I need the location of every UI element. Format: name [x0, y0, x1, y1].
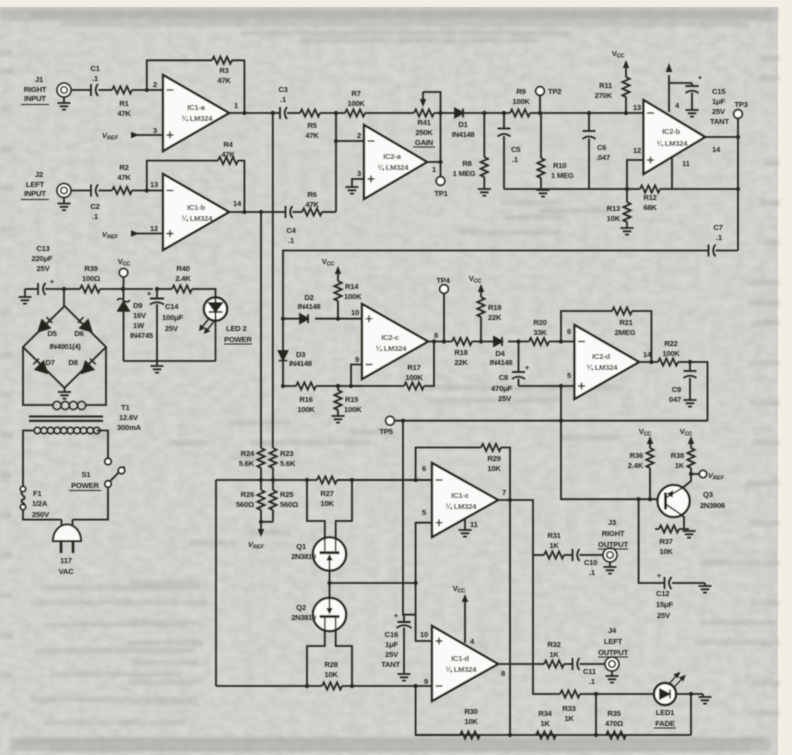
node output R29 — [508, 498, 512, 502]
diode D1 — [455, 109, 463, 118]
svg-text:250V: 250V — [32, 510, 50, 519]
label R37 10K — [659, 537, 673, 556]
label R16 100K — [297, 395, 315, 414]
svg-text:10: 10 — [420, 630, 428, 639]
node C8 top — [516, 339, 520, 343]
node R27 right — [350, 478, 354, 482]
wire pin9 drop to bottom rail — [416, 686, 460, 735]
svg-text:R1: R1 — [119, 99, 129, 108]
node TP5 line pin5 riser — [559, 419, 563, 423]
node pin2 tap — [334, 139, 338, 143]
label IC1-b LM324 — [182, 203, 214, 223]
wire R21 feedback loop — [561, 311, 651, 362]
label C9 047 — [669, 385, 681, 404]
svg-text:25V: 25V — [657, 611, 671, 620]
svg-text:47K: 47K — [117, 173, 131, 182]
label Q3 2N3906 — [700, 490, 725, 510]
node R28 left — [305, 684, 309, 688]
wire Q1 gate to node — [329, 570, 331, 583]
resistor R28 — [322, 682, 342, 689]
op-amp IC1-a — [163, 75, 229, 151]
label C10 .1 — [584, 558, 597, 577]
label R25 560ohm — [280, 490, 298, 509]
svg-text:D9: D9 — [133, 301, 142, 310]
capacitor C15 — [669, 83, 699, 117]
svg-text:D3: D3 — [296, 350, 305, 359]
svg-text:8: 8 — [434, 331, 438, 340]
wire output down to C7 — [737, 137, 739, 251]
node tap to R24 — [259, 210, 263, 214]
label Vref arrow down — [258, 522, 264, 537]
node TP4 — [442, 339, 446, 343]
svg-text:OUTPUT: OUTPUT — [598, 540, 629, 549]
wire primary right to S1 — [97, 431, 108, 459]
svg-text:S1: S1 — [82, 470, 92, 479]
svg-text:8: 8 — [501, 669, 505, 678]
resistor R15 — [332, 386, 345, 423]
label Q2 2N3819 — [291, 603, 316, 622]
potentiometer R41 — [414, 92, 441, 117]
resistor R40 — [172, 285, 192, 292]
svg-text:R36: R36 — [630, 451, 643, 460]
jack J3 — [603, 548, 617, 562]
svg-text:47K: 47K — [117, 109, 131, 118]
wire R4 to output — [238, 161, 244, 212]
jack J1 — [57, 83, 71, 97]
resistor R36 with Vcc — [646, 436, 653, 499]
wire pin4 Vcc stub — [666, 63, 672, 112]
resistor R24 — [257, 448, 264, 480]
wire to pin2 IC2-a — [336, 140, 364, 142]
svg-text:R41: R41 — [417, 118, 431, 127]
wire left edge loop — [215, 480, 217, 686]
label C5 .1 — [511, 145, 521, 164]
label R33 1K — [562, 704, 575, 723]
capacitor C6 — [583, 113, 596, 189]
wire Q1 drain-source bracket top — [307, 480, 352, 539]
zener D9 — [117, 289, 130, 361]
capacitor C11 — [573, 658, 580, 670]
svg-text:22K: 22K — [454, 358, 468, 367]
op-amp IC1-b — [163, 174, 229, 250]
resistor R30 — [460, 731, 480, 738]
wire R16 line — [283, 385, 362, 387]
capacitor C7 — [709, 245, 716, 257]
label C12 15uF 25V — [656, 589, 673, 620]
svg-text:IN4148: IN4148 — [490, 358, 513, 367]
label D3 IN4148 — [289, 350, 312, 368]
svg-text:C7: C7 — [713, 223, 722, 232]
svg-text:IC1-a: IC1-a — [187, 103, 206, 112]
svg-text:100K: 100K — [662, 349, 680, 358]
svg-text:1K: 1K — [564, 714, 574, 723]
node TP1 — [438, 160, 442, 164]
op-amp IC2-c — [362, 304, 428, 379]
label R26 560ohm — [236, 490, 254, 509]
svg-text:14: 14 — [233, 199, 242, 208]
label R20 33K — [533, 318, 547, 337]
svg-text:470μF: 470μF — [491, 384, 513, 393]
pin number 4d — [470, 637, 475, 646]
svg-text:C12: C12 — [656, 589, 669, 598]
label R21 2MEG — [615, 318, 636, 337]
resistor R3 — [212, 57, 232, 64]
wire drop to bottom rail — [509, 500, 511, 735]
svg-text:C15: C15 — [712, 87, 726, 96]
svg-text:47K: 47K — [305, 131, 319, 140]
svg-text:D6: D6 — [74, 329, 83, 338]
label 117 VAC — [59, 556, 75, 576]
svg-text:5.6K: 5.6K — [280, 459, 296, 468]
label Vcc R38 — [680, 427, 693, 438]
test point TP5 — [386, 416, 395, 425]
svg-text:9: 9 — [424, 677, 428, 686]
wire R31 line — [533, 554, 544, 556]
label C16 1uF 25V TANT — [381, 630, 400, 669]
svg-text:2MEG: 2MEG — [615, 328, 636, 337]
transistor Q2 2N3819 — [313, 598, 346, 631]
svg-text:25V: 25V — [37, 264, 51, 273]
svg-text:14: 14 — [712, 145, 721, 154]
wire S1 to plug rail — [73, 487, 109, 519]
ground supply rail — [151, 361, 164, 373]
pin number 10c — [351, 308, 359, 317]
svg-text:Q2: Q2 — [296, 603, 306, 612]
svg-text:10K: 10K — [320, 499, 334, 508]
svg-text:25V: 25V — [165, 324, 179, 333]
ground J4 — [606, 670, 619, 682]
node output TP3 — [736, 135, 740, 139]
svg-text:POWER: POWER — [224, 335, 252, 344]
capacitor C8 — [512, 342, 525, 387]
svg-text:3: 3 — [357, 169, 361, 178]
capacitor C4 — [286, 206, 293, 218]
wire Q3 emitter up — [683, 474, 691, 488]
svg-text:IC2-c: IC2-c — [381, 333, 399, 342]
svg-text:Q1: Q1 — [296, 542, 307, 551]
label R13 10K — [607, 204, 621, 223]
svg-text:TP3: TP3 — [734, 100, 747, 109]
wire primary left to F1 — [23, 431, 34, 487]
node fade mid — [594, 692, 598, 696]
svg-text:470Ω: 470Ω — [605, 719, 623, 728]
wire TP5 riser to Q3 base — [561, 421, 658, 500]
svg-text:47K: 47K — [221, 150, 235, 159]
svg-text:2N3906: 2N3906 — [700, 501, 725, 510]
label R40 2.4K — [175, 264, 191, 283]
resistor R22 — [658, 358, 678, 365]
pin number 5d — [567, 371, 572, 380]
svg-text:T1: T1 — [121, 403, 130, 412]
ground R37 — [683, 531, 696, 538]
label C8 plus — [525, 363, 530, 372]
svg-text:R16: R16 — [299, 395, 312, 404]
svg-text:1 MEG: 1 MEG — [453, 169, 476, 178]
svg-text:J3: J3 — [608, 518, 616, 527]
svg-text:2N3819: 2N3819 — [291, 552, 316, 561]
node C13 bridge — [62, 287, 66, 291]
svg-text:D8: D8 — [68, 358, 77, 367]
wire tap down to IC2-a output — [440, 113, 442, 162]
test point TP1 — [436, 162, 445, 185]
wire bridge right to secondary — [85, 347, 106, 405]
svg-text:Q3: Q3 — [703, 490, 713, 499]
label D7 D8 — [45, 358, 77, 367]
svg-text:R24: R24 — [241, 449, 255, 458]
node R17 output — [432, 339, 436, 343]
wire R7 to R41 — [365, 112, 414, 114]
label LED1 FADE — [654, 708, 676, 728]
wire R5 to node — [320, 112, 345, 114]
test point TP3 — [734, 110, 743, 137]
node C14 top — [155, 287, 159, 291]
pin number 6d — [567, 327, 571, 336]
svg-text:1W: 1W — [133, 321, 145, 330]
label R14 100K — [344, 282, 362, 301]
svg-text:¼ LM324: ¼ LM324 — [657, 139, 689, 148]
label R8 1 MEG — [453, 159, 476, 178]
svg-text:10K: 10K — [464, 717, 478, 726]
ground at C13 — [19, 289, 32, 304]
wire R2 to pin13 — [132, 190, 163, 192]
label Q1 2N3819 — [291, 542, 316, 561]
svg-text:C1: C1 — [90, 64, 100, 73]
wire gate line to IC1-c pin5 riser — [330, 582, 416, 584]
label C13 plus — [50, 277, 55, 286]
resistor R18 — [452, 338, 472, 345]
svg-text:D5: D5 — [47, 329, 57, 338]
label Vcc terminal — [118, 257, 131, 268]
resistor R11 with Vcc — [622, 60, 629, 113]
node tap to R23 — [271, 111, 275, 115]
label S1 POWER — [69, 470, 101, 491]
node R41 output tap — [438, 111, 442, 115]
op-amp IC2-b — [644, 100, 706, 174]
label TP4 — [436, 276, 450, 285]
svg-text:R20: R20 — [533, 318, 546, 327]
svg-text:47K: 47K — [305, 200, 319, 209]
wire R6 to mix node — [322, 211, 336, 213]
node pin6 IC2-d — [559, 339, 563, 343]
label R23 5.6K — [280, 449, 296, 468]
pin number 4b — [675, 101, 680, 110]
svg-text:R21: R21 — [619, 318, 633, 327]
label R22 100K — [662, 339, 680, 358]
capacitor C5 — [498, 113, 511, 189]
capacitor C2 — [91, 185, 98, 197]
svg-text:R28: R28 — [324, 660, 337, 669]
wire IC2-d output — [639, 361, 658, 363]
wire R32 to C11 — [564, 663, 573, 665]
wire D1 to R9 — [463, 112, 510, 114]
label IC2-b LM324 — [657, 127, 689, 148]
svg-text:IC1-d: IC1-d — [451, 654, 470, 663]
svg-text:¼ LM324: ¼ LM324 — [182, 214, 214, 223]
wire D2 line — [283, 318, 362, 320]
resistor R13 — [621, 189, 634, 235]
pin number 3 — [153, 126, 157, 135]
resistor R38 with Vcc — [687, 436, 694, 474]
node pin5 gate — [414, 581, 418, 585]
label R6 47K — [305, 190, 319, 209]
label J2 LEFT INPUT — [21, 170, 49, 200]
label IN4001(4) — [49, 342, 81, 351]
svg-text:117: 117 — [60, 556, 72, 565]
label C16 plus — [394, 611, 399, 620]
fuse F1 — [20, 486, 25, 509]
svg-text:560Ω: 560Ω — [280, 500, 298, 509]
label R41 250K GAIN — [413, 118, 435, 147]
svg-text:R40: R40 — [176, 264, 189, 273]
svg-text:R22: R22 — [664, 339, 677, 348]
wire C11 to J4 — [580, 663, 606, 665]
capacitor C12 — [665, 577, 672, 589]
wire IC2-a output — [427, 161, 441, 163]
wire feedback loop R3 — [147, 60, 212, 90]
svg-text:R32: R32 — [547, 640, 560, 649]
svg-text:12.6V: 12.6V — [119, 413, 139, 422]
svg-text:100K: 100K — [512, 97, 530, 106]
resistor R39 — [80, 285, 100, 292]
svg-text:IN4745: IN4745 — [130, 331, 154, 340]
transformer T1 primary — [34, 427, 100, 434]
label R15 100K — [344, 395, 362, 414]
resistor R8 — [481, 157, 488, 177]
svg-text:POWER: POWER — [71, 481, 99, 490]
wire fade mid drop — [595, 694, 597, 735]
svg-text:IN4148: IN4148 — [289, 359, 312, 368]
wire C4-R6 — [293, 211, 303, 213]
wire R40 to LED2 — [192, 289, 216, 298]
svg-text:¼ LM324: ¼ LM324 — [587, 363, 619, 372]
label IC1-c LM324 — [446, 491, 478, 511]
wire R9 to IC2-b pin13 — [530, 112, 644, 114]
wire R3 to output — [232, 60, 244, 113]
svg-text:11: 11 — [682, 159, 691, 168]
pin number 1 — [234, 101, 239, 110]
pin number 12 — [150, 224, 158, 233]
resistor R32 — [544, 660, 564, 667]
wire pin6 line — [337, 479, 432, 481]
label IC1-d LM324 — [446, 654, 478, 674]
label R32 1K — [547, 640, 560, 659]
label R39 100ohm — [82, 264, 100, 283]
label TP1 — [434, 189, 448, 198]
svg-text:2.4K: 2.4K — [628, 461, 644, 470]
label IC2-a LM324 — [378, 152, 410, 172]
svg-text:1/2A: 1/2A — [32, 499, 48, 508]
pin number 5c — [422, 508, 427, 517]
svg-text:R9: R9 — [516, 87, 525, 96]
wire Vref rail — [261, 521, 273, 523]
wire riser to TP5 line — [560, 386, 562, 421]
transformer T1 core — [29, 417, 103, 421]
ground pin11 IC1-c — [459, 519, 472, 537]
node bottom rail mid — [594, 733, 598, 737]
wire bridge top lead — [63, 289, 65, 306]
label D4 IN4148 — [490, 349, 513, 367]
svg-text:R29: R29 — [487, 454, 500, 463]
label R27 10K — [320, 489, 334, 508]
label D2 IN4148 — [298, 293, 321, 311]
label J4 LEFT OUTPUT — [598, 626, 629, 657]
svg-text:2.4K: 2.4K — [175, 274, 191, 283]
svg-text:INPUT: INPUT — [24, 94, 46, 103]
jack J4 — [605, 657, 619, 671]
svg-text:100K: 100K — [347, 99, 365, 108]
svg-text:R14: R14 — [345, 282, 359, 291]
svg-text:16V: 16V — [133, 311, 147, 320]
svg-text:R4: R4 — [223, 140, 233, 149]
label R28 10K — [324, 660, 338, 679]
wire C14 to R40 — [157, 288, 172, 290]
pin number 7c — [502, 488, 506, 497]
wire R29 feedback loop — [416, 448, 510, 500]
svg-text:C14: C14 — [165, 302, 179, 311]
wire long drop to R23 — [272, 113, 274, 448]
label IC1-a LM324 — [182, 103, 214, 123]
svg-text:100K: 100K — [405, 373, 423, 382]
svg-text:¼ LM324: ¼ LM324 — [376, 344, 408, 353]
pin number 12b — [633, 146, 641, 155]
svg-text:R6: R6 — [307, 190, 316, 199]
wire pin4 Vcc stub IC1-d — [462, 594, 468, 643]
svg-text:9: 9 — [355, 355, 359, 364]
wire pin5 line from C8 — [519, 385, 575, 387]
svg-text:2: 2 — [153, 80, 157, 89]
svg-text:LED 2: LED 2 — [226, 324, 247, 333]
wire F1 to plug rail — [23, 510, 62, 520]
resistor R21 — [612, 307, 632, 314]
resistor R33 — [560, 690, 580, 697]
svg-text:¼ LM324: ¼ LM324 — [182, 114, 214, 123]
pin number 8d — [501, 669, 505, 678]
node Vref emitter — [689, 472, 693, 476]
resistor R37 — [659, 525, 679, 532]
ground LED1 — [699, 694, 712, 704]
wire Q2 drain-source bracket bottom — [307, 630, 352, 686]
op-amp IC1-d — [432, 626, 498, 701]
svg-text:FADE: FADE — [655, 719, 675, 728]
svg-text:D2: D2 — [304, 293, 313, 302]
svg-text:.1: .1 — [512, 155, 519, 164]
wire Vref to pin12 — [131, 230, 163, 236]
wire pin12 lead — [627, 160, 644, 189]
svg-text:R10: R10 — [553, 161, 566, 170]
svg-text:11: 11 — [470, 520, 479, 529]
node pin9 drop — [414, 684, 418, 688]
node D2 line left — [281, 317, 285, 321]
wire C3-R5 — [287, 112, 300, 114]
resistor R9 — [510, 109, 530, 116]
label R5 47K — [305, 121, 319, 140]
svg-text:.1: .1 — [716, 233, 723, 242]
svg-text:R31: R31 — [547, 531, 561, 540]
svg-text:R39: R39 — [84, 264, 97, 273]
wire pin5 stub — [416, 523, 432, 583]
node output IC1-a — [242, 111, 246, 115]
wire C12 line — [639, 499, 705, 583]
resistor R35 — [606, 731, 626, 738]
node C5 top — [502, 111, 506, 115]
svg-text:270K: 270K — [595, 91, 613, 100]
op-amp IC2-d — [575, 325, 640, 399]
wire R41 to D1 — [434, 112, 455, 114]
svg-text:OUTPUT: OUTPUT — [598, 648, 629, 657]
label Vref text — [248, 540, 265, 551]
label C15 plus — [698, 73, 703, 82]
node R23 rail — [271, 478, 275, 482]
